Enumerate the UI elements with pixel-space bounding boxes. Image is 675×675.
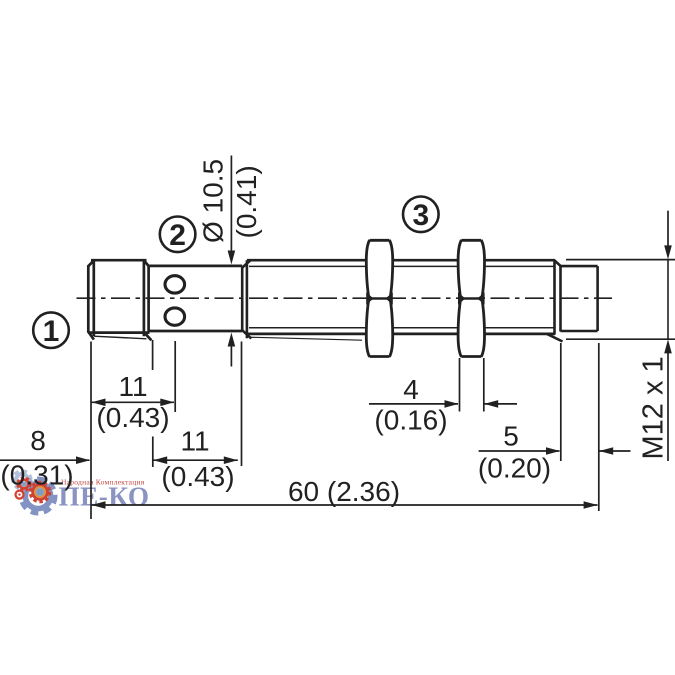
extension line cap end lower segment [152,437,154,468]
callout circle 2 [160,217,196,253]
svg-text:11: 11 [118,371,147,402]
svg-text:M12 x 1: M12 x 1 [638,356,670,459]
extension line left sensing face [90,342,92,520]
svg-text:4: 4 [403,374,419,405]
svg-text:11: 11 [180,426,209,457]
LED indicator hole 1 [165,276,185,293]
svg-text:60 (2.36): 60 (2.36) [288,476,400,507]
logo gear large blue [22,480,54,512]
extension line nut2 right [483,358,485,412]
dimension Ø10.5 (0.41) [198,156,263,367]
dimension 11 (0.43) second [153,426,238,493]
centerline [77,297,613,299]
dimension 8 (0.31) [0,425,90,491]
logo watermark PE-KO [14,472,150,513]
svg-text:1: 1 [43,315,60,348]
logo gear red small [18,478,30,490]
logo gear tiny ring [16,491,24,499]
svg-text:3: 3 [412,199,429,232]
sensor cap M12 body [88,260,151,341]
svg-text:8: 8 [30,425,46,456]
threaded barrel M12 [247,260,555,334]
LED window section (Ø10.5) [149,266,243,331]
extension line mid housing [174,341,176,412]
dimension 60 (2.36) [92,476,598,509]
extension line neck end [241,342,243,467]
connector end [561,266,598,331]
svg-text:(0.43): (0.43) [96,402,169,433]
hex nut 1 [366,240,392,357]
svg-text:(0.43): (0.43) [161,461,234,492]
barrel end face [547,260,563,342]
cap bottom chamfer edge [94,336,147,339]
svg-text:(0.41): (0.41) [231,165,262,238]
extension line cap end upper segment [152,340,154,370]
dimension 4 (0.16) [369,374,517,436]
svg-text:5: 5 [503,421,519,452]
extension line connector start [560,343,562,461]
svg-text:(0.31): (0.31) [0,460,73,491]
hex nut 2 [458,240,484,357]
thread relief neck [242,260,252,339]
svg-text:(0.16): (0.16) [374,405,447,436]
dimension M12 x 1 [566,211,675,461]
callout circle 1 [33,312,69,348]
extension line connector end [598,343,600,511]
neck bottom chamfer edge [249,337,362,340]
LED indicator hole 2 [165,308,185,325]
extension line nut2 left [459,358,461,412]
callout circle 3 [403,197,439,233]
logo gear small light blue [14,472,31,489]
svg-text:Ø 10.5: Ø 10.5 [198,159,229,243]
svg-text:(0.20): (0.20) [478,453,551,484]
dimension 5 (0.20) [478,421,631,484]
logo gear red large [30,482,49,501]
dimension 11 (0.43) first [92,371,175,433]
svg-text:2: 2 [169,219,186,252]
